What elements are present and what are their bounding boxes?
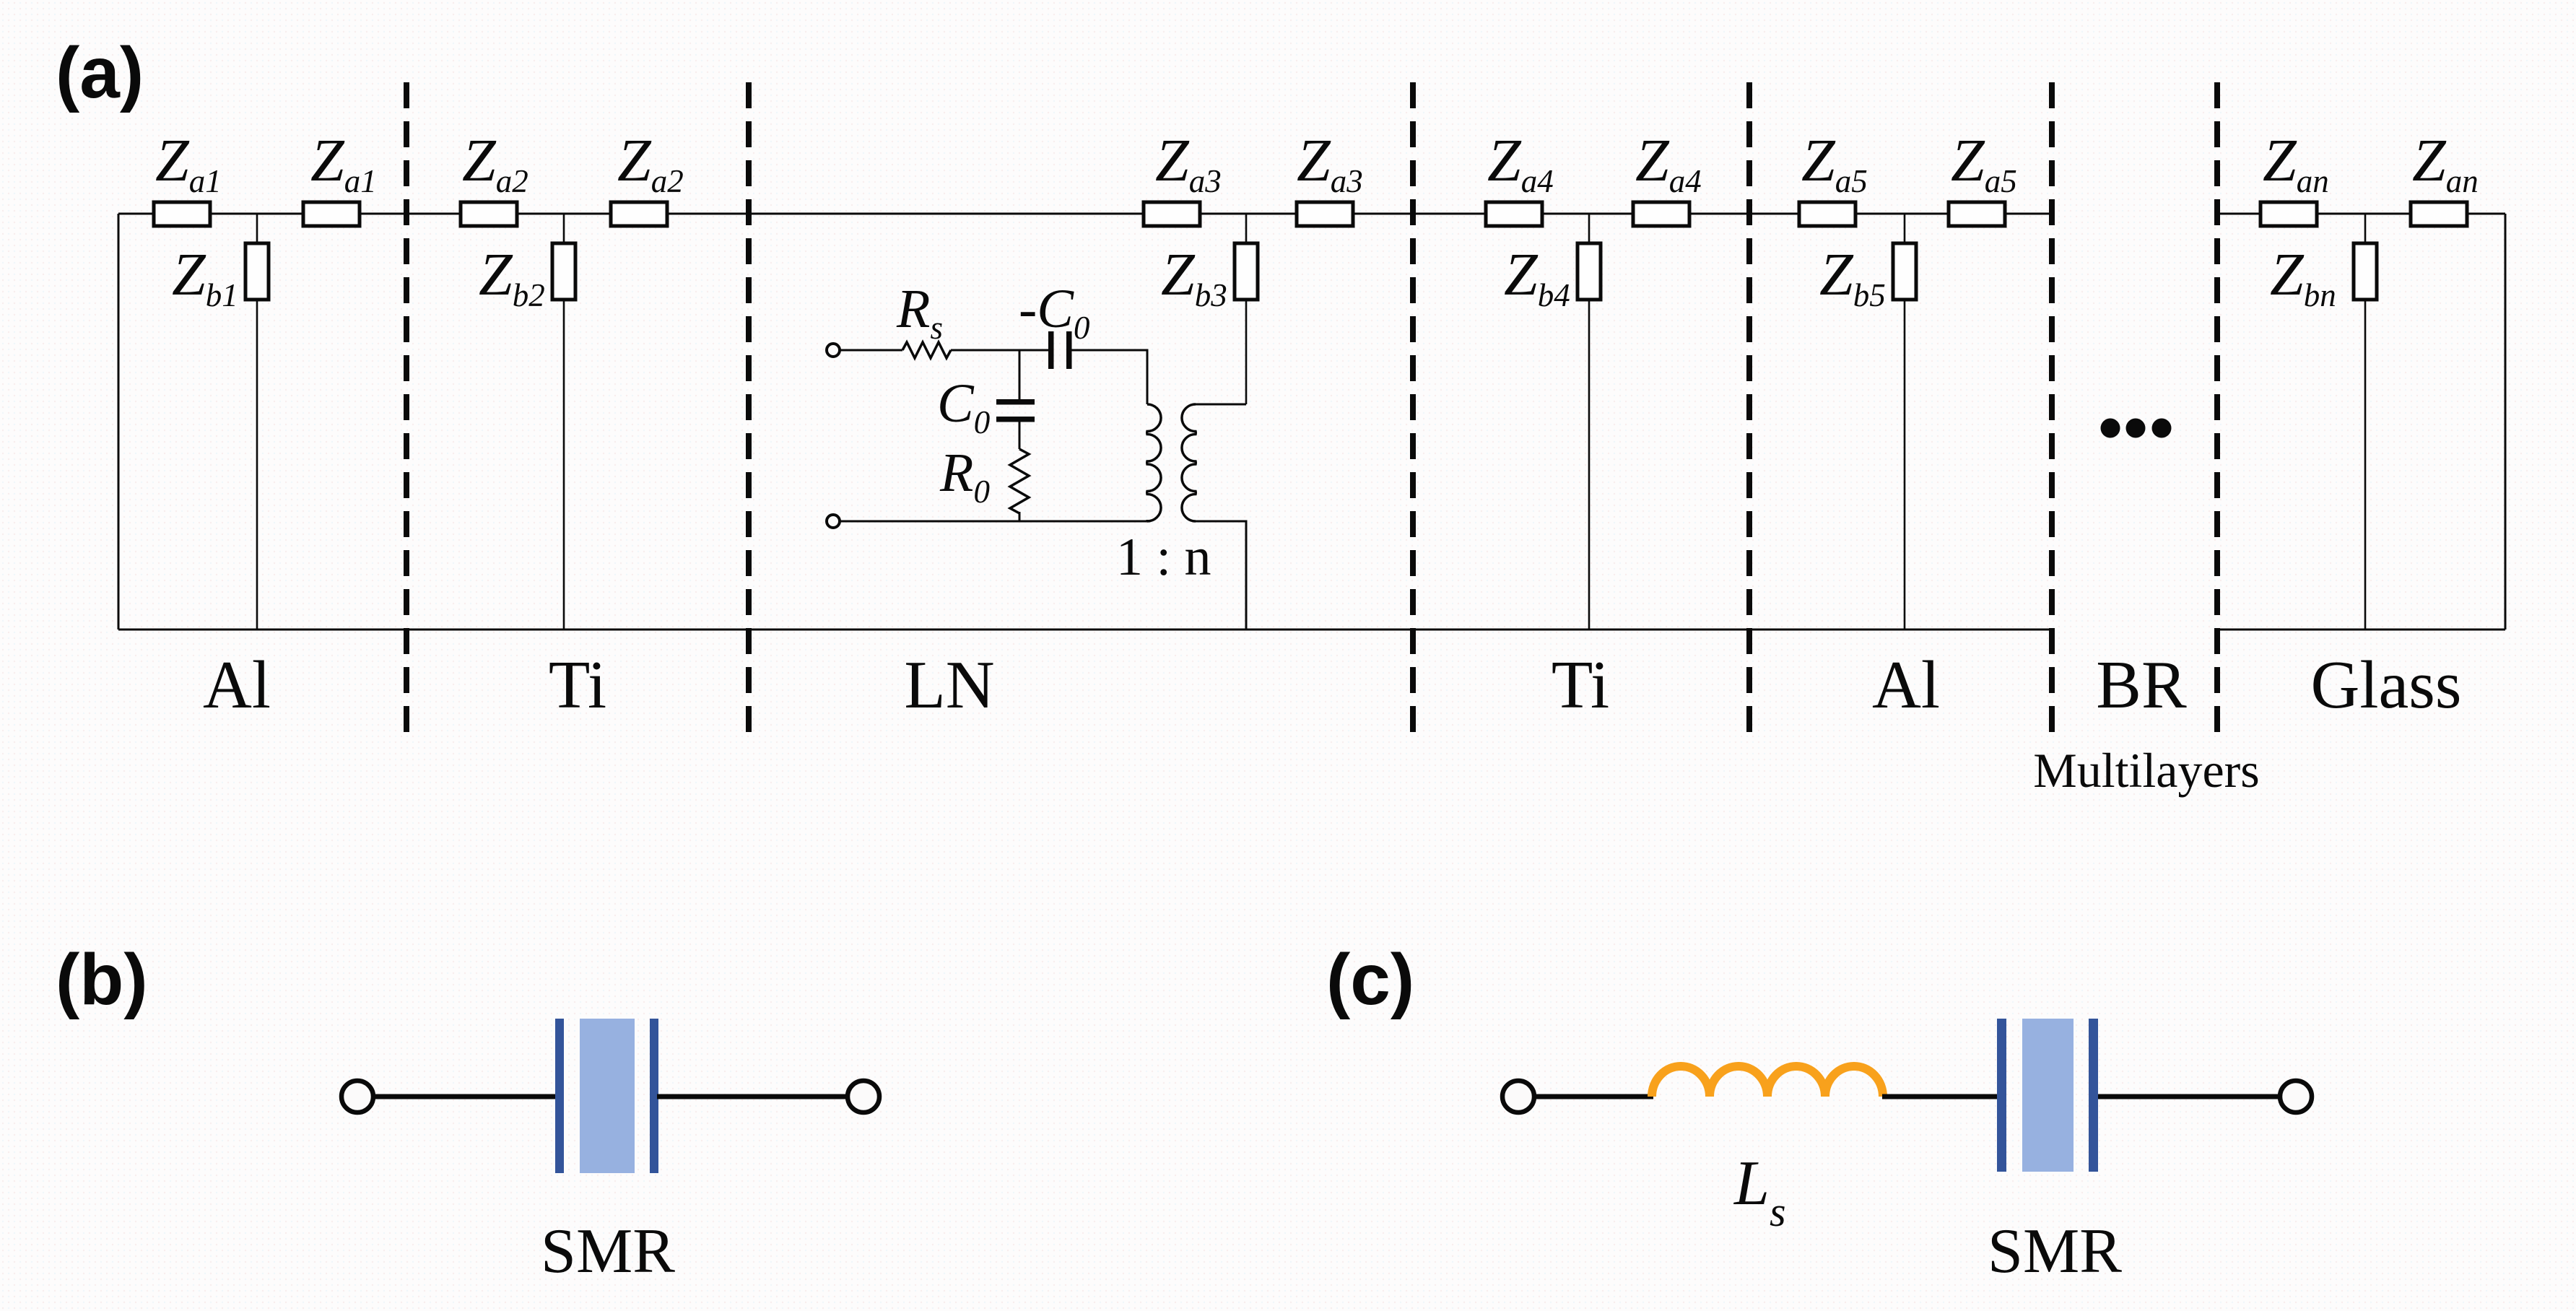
svg-text:Ti: Ti (549, 648, 606, 723)
dashed boundary Ti/Al (1746, 82, 1752, 732)
svg-text:LN: LN (904, 648, 994, 723)
resistor Zb2 (552, 243, 575, 300)
capacitor C0 plates (996, 399, 1035, 422)
svg-text:Glass: Glass (2311, 648, 2462, 723)
wire: bottom rail left segment (118, 629, 2052, 631)
wire: primary bottom connects rail (1146, 520, 1149, 521)
node input terminal bottom (827, 515, 840, 528)
wire: Zb2 shunt stub (563, 214, 565, 630)
svg-text:Multilayers: Multilayers (2033, 743, 2260, 798)
svg-text:Al: Al (203, 648, 271, 723)
SMR resonator c: right electrode (2089, 1019, 2098, 1172)
svg-text:Al: Al (1872, 648, 1940, 723)
wire: -C0 to primary elbow (1071, 350, 1147, 404)
wire: secondary bottom elbow to bottom rail (1196, 521, 1246, 630)
resistor Za4 (right) (1633, 202, 1689, 226)
node input terminal top (827, 344, 840, 357)
svg-text:Ti: Ti (1552, 648, 1609, 723)
resistor Za1 (left) (154, 202, 210, 226)
svg-text:1 : n: 1 : n (1116, 528, 1211, 587)
wire: top rail right segment (2217, 213, 2505, 215)
svg-text:(a): (a) (56, 32, 144, 113)
wire: Zb1 shunt stub (256, 214, 258, 630)
node terminal b-left (341, 1081, 373, 1112)
resistor Zan (right) (2411, 202, 2467, 226)
SMR resonator b: right electrode (650, 1019, 658, 1173)
resistor R0 zigzag (1010, 449, 1029, 513)
SMR resonator c: piezo body (2022, 1019, 2074, 1172)
node terminal c-right (2280, 1081, 2312, 1112)
wire: terminal to Rs (840, 349, 902, 352)
resistor Zan (left) (2260, 202, 2317, 226)
svg-text:(c): (c) (1326, 939, 1414, 1020)
svg-text:BR: BR (2096, 648, 2187, 723)
resistor Za5 (right) (1949, 202, 2005, 226)
resistor Rs zigzag (902, 342, 951, 358)
SMR resonator b: piezo body (580, 1019, 635, 1173)
dashed boundary Al/BR (2049, 82, 2055, 732)
wire: right outline vertical (2505, 214, 2507, 630)
node multilayer ellipsis dots (2101, 419, 2172, 438)
wire: c-left lead (1535, 1094, 1653, 1099)
resistor Zb5 (1893, 243, 1916, 300)
wire: piezo bottom rail (840, 521, 1147, 523)
wire: Zb5 shunt stub (1904, 214, 1906, 630)
wire: Zb4 shunt stub (1588, 214, 1591, 630)
transformer secondary winding (1:n right) (1182, 404, 1196, 521)
dashed boundary Ti/LN (746, 82, 752, 732)
node terminal c-left (1502, 1081, 1534, 1112)
wire: secondary top elbow to Zb3 stub (1196, 404, 1246, 406)
resistor Za2 (left) (461, 202, 517, 226)
resistor Zb1 (245, 243, 269, 300)
wire: Rs to -C0 (951, 349, 1048, 352)
dashed boundary LN/Ti (1410, 82, 1416, 732)
wire: C0 branch stub (1019, 350, 1021, 399)
wire: top rail left segment (118, 213, 2052, 215)
svg-text:(b): (b) (56, 939, 148, 1020)
resistor Za4 (left) (1486, 202, 1542, 226)
SMR resonator c: left electrode (1997, 1019, 2006, 1172)
wire: R0 to bottom rail of piezo port (1019, 512, 1021, 521)
wire: c-right lead (2098, 1094, 2279, 1099)
wire: left outline vertical (118, 214, 120, 630)
dashed boundary Al/Ti (404, 82, 409, 732)
dashed boundary BR/Glass (2214, 82, 2220, 732)
resistor Za1 (right) (303, 202, 360, 226)
resistor Zbn (2354, 243, 2377, 300)
wire: inductor to SMR (1882, 1094, 1997, 1099)
wire: C0 to R0 (1019, 422, 1021, 449)
capacitor -C0 plates (1048, 331, 1072, 369)
wire: b-right lead (657, 1094, 847, 1099)
wire: Zbn shunt stub (2364, 214, 2367, 630)
svg-text:SMR: SMR (541, 1216, 675, 1286)
resistor Za3 (left) (1144, 202, 1200, 226)
resistor Zb3 (1235, 243, 1258, 300)
wire: b-left lead (374, 1094, 555, 1099)
wire: Zb3 shunt stub (1245, 214, 1248, 404)
node terminal b-right (848, 1081, 879, 1112)
resistor Za5 (left) (1799, 202, 1855, 226)
transformer primary winding (1:n left) (1147, 404, 1161, 521)
SMR resonator b: left electrode (555, 1019, 564, 1173)
wire: bottom rail right segment (2219, 629, 2505, 631)
resistor Zb4 (1578, 243, 1601, 300)
inductor Ls (1652, 1066, 1883, 1097)
resistor Za3 (right) (1297, 202, 1353, 226)
svg-text:SMR: SMR (1988, 1216, 2122, 1286)
resistor Za2 (right) (611, 202, 667, 226)
